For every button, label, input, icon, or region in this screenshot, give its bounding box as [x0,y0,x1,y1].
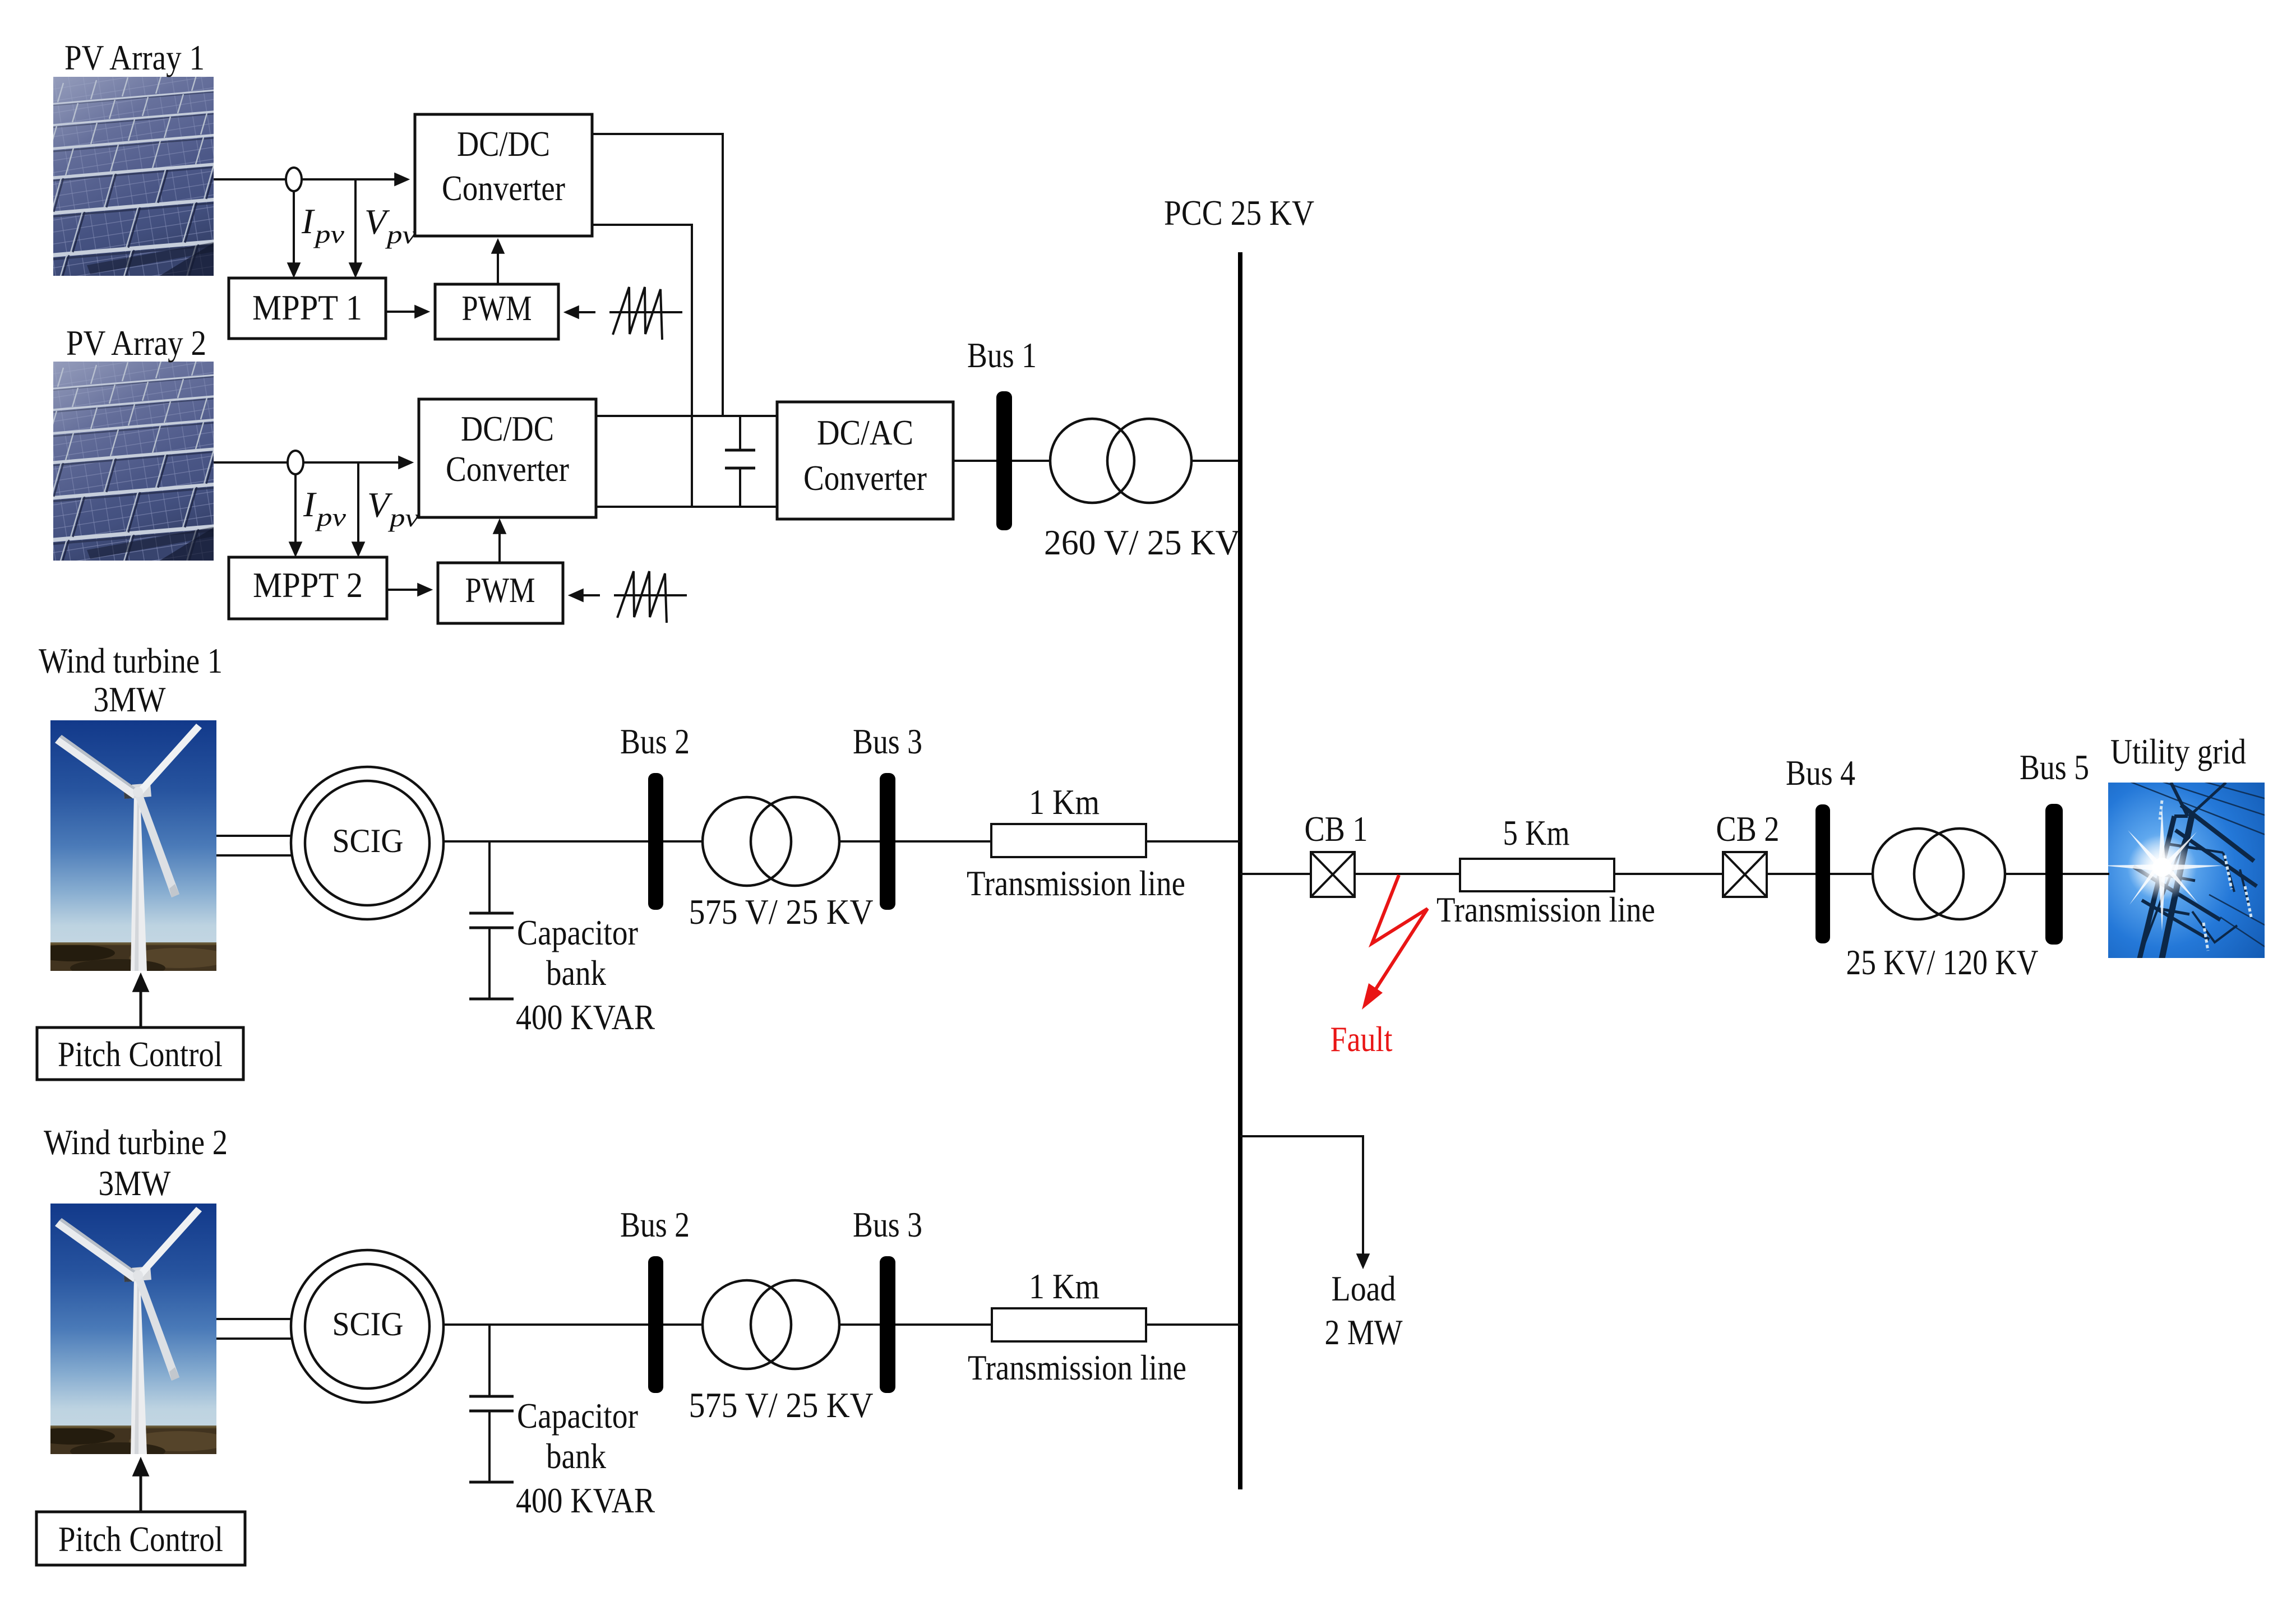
label Bus 2 (row 1) [620,721,690,761]
wire transformer T1 to PCC [1191,460,1240,462]
block PWM 1 [435,284,558,339]
label Utility grid [2110,732,2246,771]
label Bus 4 [1786,753,1855,793]
wire DC bus minus [596,506,777,508]
svg-text:bank: bank [546,1436,606,1476]
capacitor DC link [725,416,755,507]
svg-text:pv: pv [313,220,344,248]
svg-text:pv: pv [385,221,416,249]
svg-text:PCC 25 KV: PCC 25 KV [1164,193,1314,233]
circuit breaker CB 1 [1311,852,1355,897]
svg-text:Wind turbine 2: Wind turbine 2 [44,1122,228,1162]
svg-text:Utility grid: Utility grid [2110,732,2246,771]
label 25 KV/ 120 KV [1846,942,2039,982]
label 575 V/ 25 KV (row 2) [689,1385,874,1425]
wire transmission line 2 to PCC [1146,1323,1240,1326]
block MPPT 2 [229,557,387,619]
svg-text:CB 2: CB 2 [1716,809,1780,849]
label 1 Km (row 1) [1029,782,1100,822]
label Transmission line (5 Km) [1436,890,1655,929]
sawtooth carrier 2 [614,571,687,623]
label Bus 5 [2020,747,2089,787]
bus bar Bus 3 (row 1) [880,773,895,910]
svg-text:Bus 5: Bus 5 [2020,747,2089,787]
svg-text:1 Km: 1 Km [1029,1266,1100,1306]
label PCC 25 KV [1164,193,1314,233]
label 1 Km (row 2) [1029,1266,1100,1306]
wire node to DC/DC 1 input (arrow) [302,178,408,180]
svg-text:CB 1: CB 1 [1305,809,1368,849]
wire Pitch Control 1 arrow to turbine [140,975,142,1028]
transformer T4 25KV/120KV [1873,829,2005,919]
wire carrier to PWM 1 (arrow left) [566,311,595,313]
svg-text:575 V/ 25 KV: 575 V/ 25 KV [689,892,874,932]
wire Bus 3 to transmission line 1 [895,840,991,843]
label 5 Km [1503,813,1570,853]
wire T2 to Bus 3 (row 1) [839,840,880,843]
wire SCIG 1 to transformer T2 [444,840,703,843]
photo Wind turbine 1 [31,720,230,977]
bus bar Bus 4 [1815,804,1830,943]
label Ipv 1 [301,201,344,248]
svg-text:Bus 2: Bus 2 [620,1205,690,1244]
svg-text:PWM: PWM [462,288,532,328]
svg-text:Pitch Control: Pitch Control [58,1519,223,1559]
svg-text:SCIG: SCIG [332,822,404,859]
node PV1 sense tap [286,168,302,191]
label 400 KVAR (2) [516,1480,655,1520]
svg-text:Bus 4: Bus 4 [1786,753,1855,793]
shaft turbine 1 to SCIG 1 (double line) [216,836,306,855]
bus PCC 25 KV vertical line [1238,252,1242,1489]
wire carrier to PWM 2 (arrow left) [570,594,600,596]
wire PV1 to node [214,178,287,180]
circuit breaker CB 2 [1723,852,1767,897]
wire transmission line 1 to PCC [1146,840,1240,843]
photo Wind turbine 2 [31,1204,230,1460]
wire CB 2 to Bus 4 [1767,873,1815,875]
wire Ipv 1 sense arrow [293,191,295,276]
svg-text:pv: pv [387,504,419,532]
transmission line 5 Km block [1460,859,1614,891]
block DC/AC Converter [777,402,953,519]
label PV Array 1 [64,38,205,77]
label Ipv 2 [303,484,346,531]
wire PWM 1 to DC/DC 1 gate (arrow up) [497,240,499,284]
svg-text:PV Array 1: PV Array 1 [64,38,205,77]
label 260 V/ 25 KV [1044,522,1240,562]
sawtooth carrier 1 [609,287,682,340]
wire 5Km line to CB 2 [1614,873,1723,875]
svg-text:260 V/ 25 KV: 260 V/ 25 KV [1044,522,1240,562]
svg-text:Converter: Converter [442,168,565,208]
svg-text:Transmission line: Transmission line [967,863,1185,903]
wire DC bus plus [596,415,777,417]
label Bus 3 (row 1) [853,721,922,761]
svg-text:Fault: Fault [1331,1019,1393,1059]
bus bar Bus 5 [2045,804,2063,945]
block Pitch Control 1 [37,1028,243,1080]
svg-text:400 KVAR: 400 KVAR [516,1480,655,1520]
svg-text:MPPT 1: MPPT 1 [252,288,362,327]
svg-text:Bus 3: Bus 3 [853,721,922,761]
label Load [1332,1269,1396,1308]
svg-text:PWM: PWM [465,570,535,610]
wire PV2 to node [214,461,288,464]
wire Pitch Control 2 arrow to turbine [140,1460,142,1512]
label 400 KVAR (1) [516,997,655,1037]
transformer T1 260V/25KV [1050,419,1191,503]
photo PV Array 2 [42,350,233,585]
wire MPPT 1 to PWM 1 (arrow) [386,311,428,313]
svg-text:Converter: Converter [803,458,927,498]
wire PCC to CB 1 [1240,873,1311,875]
label 2 MW [1325,1312,1403,1352]
wire Bus 3 to transmission line 2 [895,1323,992,1326]
label Capacitor bank (2) [517,1396,638,1476]
wire PWM 2 to DC/DC 2 gate (arrow up) [498,521,501,563]
bus bar Bus 1 [996,391,1012,530]
wire Bus 5 to utility grid [2063,873,2109,875]
capacitor bank 1 [469,841,514,999]
wire DC/DC 1 output minus [592,225,692,507]
svg-text:Pitch Control: Pitch Control [58,1034,223,1074]
wire Bus 4 to transformer T4 [1830,873,1874,875]
block Pitch Control 2 [36,1512,245,1565]
svg-text:Bus 3: Bus 3 [853,1205,922,1244]
bus bar Bus 2 (row 2) [648,1256,663,1393]
generator SCIG 2 [291,1250,444,1403]
svg-text:2 MW: 2 MW [1325,1312,1403,1352]
block MPPT 1 [229,278,386,339]
transformer T3 575V/25KV (row 2) [703,1280,839,1369]
wire Vpv 1 sense arrow [354,179,357,276]
svg-text:400 KVAR: 400 KVAR [516,997,655,1037]
label Fault [1331,1019,1393,1059]
transmission line 2 block [992,1308,1146,1341]
block DC/DC Converter 2 [419,399,596,517]
fault lightning bolt [1362,875,1428,1010]
svg-text:I: I [303,484,317,524]
label CB 1 [1305,809,1368,849]
wire DC/DC 1 output plus [592,134,723,416]
svg-text:575 V/ 25 KV: 575 V/ 25 KV [689,1385,874,1425]
svg-text:3MW: 3MW [94,679,167,719]
label Bus 1 [967,335,1037,375]
generator SCIG 1 [291,767,444,919]
node PV2 sense tap [288,451,303,474]
svg-text:PV Array 2: PV Array 2 [66,323,206,363]
wire Ipv 2 sense arrow [294,474,297,555]
label Bus 3 (row 2) [853,1205,922,1244]
svg-text:MPPT 2: MPPT 2 [253,565,363,605]
svg-text:Capacitor: Capacitor [517,1396,638,1436]
svg-text:Capacitor: Capacitor [517,913,638,952]
label 3MW (turbine 1) [94,679,167,719]
bus bar Bus 3 (row 2) [880,1256,895,1393]
label Vpv 2 [367,485,419,532]
svg-text:Wind turbine 1: Wind turbine 1 [39,641,223,681]
svg-text:SCIG: SCIG [332,1306,404,1343]
svg-text:1 Km: 1 Km [1029,782,1100,822]
wire Bus 1 to transformer T1 [1012,460,1051,462]
wire CB 1 to transmission line 5Km [1355,873,1460,875]
label Capacitor bank (1) [517,913,638,993]
svg-text:DC/DC: DC/DC [457,124,550,164]
photo PV Array 1 [42,66,233,300]
svg-text:Load: Load [1332,1269,1396,1308]
shaft turbine 2 to SCIG 2 (double line) [216,1319,306,1339]
label 575 V/ 25 KV (row 1) [689,892,874,932]
svg-text:DC/DC: DC/DC [461,409,554,448]
wire PCC to load (arrow down) [1240,1136,1363,1267]
svg-text:Bus 2: Bus 2 [620,721,690,761]
transmission line 1 block [991,824,1146,857]
block PWM 2 [438,563,563,623]
label Bus 2 (row 2) [620,1205,690,1244]
svg-text:pv: pv [315,503,346,531]
svg-text:Converter: Converter [446,449,569,489]
label Wind turbine 2 [44,1122,228,1162]
label Wind turbine 1 [39,641,223,681]
svg-text:3MW: 3MW [99,1163,172,1203]
wire MPPT 2 to PWM 2 (arrow) [387,589,431,591]
bus bar Bus 2 (row 1) [648,773,663,910]
label Transmission line (row 1) [967,863,1185,903]
svg-text:25 KV/ 120 KV: 25 KV/ 120 KV [1846,942,2039,982]
wire T4 to Bus 5 [2005,873,2045,875]
wire T3 to Bus 3 (row 2) [839,1323,880,1326]
svg-text:bank: bank [546,953,606,993]
wire node to DC/DC 2 input (arrow) [303,461,412,464]
transformer T2 575V/25KV (row 1) [703,797,839,886]
photo Utility grid [2103,777,2271,961]
label Transmission line (row 2) [968,1348,1186,1387]
label PV Array 2 [66,323,206,363]
label 3MW (turbine 2) [99,1163,172,1203]
block DC/DC Converter 1 [415,114,592,236]
wire DC/AC to Bus 1 [953,460,996,462]
svg-text:5 Km: 5 Km [1503,813,1570,853]
label CB 2 [1716,809,1780,849]
wire SCIG 2 to transformer T3 [444,1323,703,1326]
label Vpv 1 [364,202,416,249]
svg-text:Bus 1: Bus 1 [967,335,1037,375]
wire Vpv 2 sense arrow [357,462,359,555]
svg-text:Transmission line: Transmission line [1436,890,1655,929]
svg-text:I: I [301,201,315,241]
capacitor bank 2 [469,1325,514,1482]
svg-text:Transmission line: Transmission line [968,1348,1186,1387]
svg-text:DC/AC: DC/AC [817,413,913,452]
